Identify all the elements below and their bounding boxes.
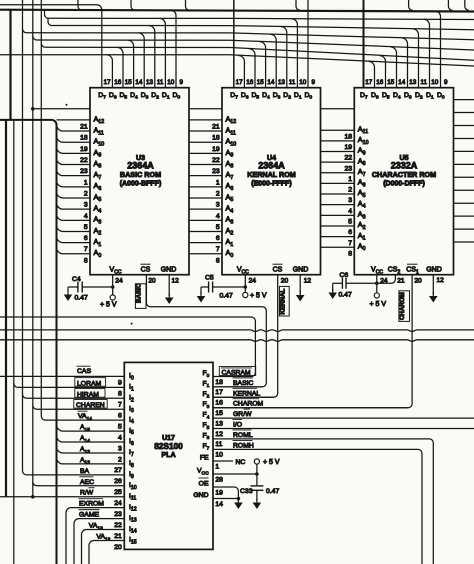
svg-text:18: 18 xyxy=(212,135,220,142)
svg-text:13: 13 xyxy=(146,79,154,86)
svg-text:C6: C6 xyxy=(340,272,349,279)
svg-text:23: 23 xyxy=(80,168,88,175)
svg-text:15: 15 xyxy=(125,79,133,86)
svg-text:24: 24 xyxy=(249,278,257,285)
svg-text:11: 11 xyxy=(157,79,164,86)
svg-text:KERNAL ROM: KERNAL ROM xyxy=(247,170,296,179)
svg-text:13: 13 xyxy=(215,420,223,427)
svg-text:12: 12 xyxy=(304,278,312,285)
svg-text:KERNAL: KERNAL xyxy=(233,390,260,397)
svg-text:17: 17 xyxy=(365,79,373,86)
svg-text:27: 27 xyxy=(114,467,122,474)
svg-text:3: 3 xyxy=(118,445,122,452)
svg-text:20: 20 xyxy=(414,278,422,285)
svg-text:GND: GND xyxy=(161,267,177,274)
svg-text:C4: C4 xyxy=(72,276,81,283)
svg-text:(E000-FFFF): (E000-FFFF) xyxy=(251,180,291,187)
svg-text:ROMH: ROMH xyxy=(233,442,254,449)
svg-text:0.47: 0.47 xyxy=(220,293,233,300)
svg-text:CS: CS xyxy=(141,267,151,274)
svg-text:15: 15 xyxy=(215,410,223,417)
svg-text:C5: C5 xyxy=(205,275,214,282)
svg-text:21: 21 xyxy=(212,124,220,131)
svg-text:BA: BA xyxy=(80,468,90,475)
svg-text:GND: GND xyxy=(293,267,309,274)
svg-text:GR/W: GR/W xyxy=(233,411,252,418)
svg-text:CS: CS xyxy=(273,267,283,274)
svg-text:9: 9 xyxy=(180,79,184,86)
svg-text:2332A: 2332A xyxy=(391,161,418,171)
svg-text:12: 12 xyxy=(437,277,445,284)
svg-text:4: 4 xyxy=(348,208,352,215)
svg-text:26: 26 xyxy=(114,478,122,485)
svg-text:CHAROM: CHAROM xyxy=(399,292,406,320)
svg-text:15: 15 xyxy=(387,79,395,86)
svg-text:14: 14 xyxy=(398,79,406,86)
svg-text:4: 4 xyxy=(84,213,88,220)
svg-text:24: 24 xyxy=(115,278,123,285)
svg-text:28: 28 xyxy=(215,476,223,483)
svg-text:8: 8 xyxy=(216,257,220,264)
svg-text:3: 3 xyxy=(84,202,88,209)
svg-text:23: 23 xyxy=(114,511,122,518)
svg-text:0.47: 0.47 xyxy=(75,295,88,302)
svg-text:2: 2 xyxy=(118,456,122,463)
svg-text:CHARACTER ROM: CHARACTER ROM xyxy=(372,170,436,179)
svg-text:16: 16 xyxy=(114,79,122,86)
svg-text:8: 8 xyxy=(118,391,122,398)
svg-text:11: 11 xyxy=(215,441,222,448)
svg-text:2: 2 xyxy=(216,190,220,197)
svg-text:16: 16 xyxy=(246,79,254,86)
svg-text:1: 1 xyxy=(216,179,220,186)
svg-text:5: 5 xyxy=(84,224,88,231)
svg-text:5: 5 xyxy=(216,224,220,231)
svg-text:8: 8 xyxy=(348,250,352,257)
svg-text:1: 1 xyxy=(215,463,219,470)
svg-text:(A000-BFFF): (A000-BFFF) xyxy=(120,180,162,187)
svg-text:2: 2 xyxy=(348,187,352,194)
svg-text:18: 18 xyxy=(344,133,352,140)
svg-text:OE: OE xyxy=(199,481,209,488)
svg-text:15: 15 xyxy=(257,79,265,86)
svg-text:CHAROM: CHAROM xyxy=(233,401,264,408)
svg-text:6: 6 xyxy=(118,413,122,420)
svg-text:GND: GND xyxy=(426,267,442,274)
svg-text:13: 13 xyxy=(278,79,286,86)
svg-text:18: 18 xyxy=(80,135,88,142)
svg-text:GND: GND xyxy=(193,492,208,499)
svg-text:16: 16 xyxy=(215,400,223,407)
svg-text:4: 4 xyxy=(216,213,220,220)
svg-text:23: 23 xyxy=(344,165,352,172)
svg-text:22: 22 xyxy=(114,522,122,529)
svg-text:4: 4 xyxy=(118,434,122,441)
svg-text:20: 20 xyxy=(281,278,289,285)
svg-text:19: 19 xyxy=(212,146,220,153)
svg-text:3: 3 xyxy=(216,202,220,209)
svg-text:9: 9 xyxy=(444,79,448,86)
svg-text:24: 24 xyxy=(114,500,122,507)
svg-text:ROML: ROML xyxy=(233,432,253,439)
svg-text:+ 5 V: + 5 V xyxy=(100,302,117,309)
svg-text:25: 25 xyxy=(114,489,122,496)
svg-text:9: 9 xyxy=(118,380,122,387)
svg-text:14: 14 xyxy=(267,79,275,86)
svg-text:+ 5 V: + 5 V xyxy=(370,301,387,308)
svg-text:11: 11 xyxy=(421,79,428,86)
svg-text:R/W: R/W xyxy=(80,490,94,497)
svg-text:11: 11 xyxy=(289,79,296,86)
svg-text:KERNAL: KERNAL xyxy=(280,288,287,314)
svg-text:10: 10 xyxy=(299,79,307,86)
svg-text:14: 14 xyxy=(135,79,143,86)
svg-text:C33: C33 xyxy=(240,488,253,495)
svg-text:BASIC: BASIC xyxy=(233,380,253,387)
svg-text:6: 6 xyxy=(216,235,220,242)
svg-text:5: 5 xyxy=(348,219,352,226)
svg-text:17: 17 xyxy=(215,389,223,396)
svg-text:19: 19 xyxy=(344,144,352,151)
svg-text:1: 1 xyxy=(348,176,352,183)
svg-text:7: 7 xyxy=(216,246,220,253)
svg-text:16: 16 xyxy=(376,79,384,86)
svg-text:+ 5 V: + 5 V xyxy=(250,293,267,300)
svg-text:I/O: I/O xyxy=(233,422,242,429)
svg-text:PLA: PLA xyxy=(161,450,175,459)
svg-text:18: 18 xyxy=(215,379,223,386)
svg-text:8: 8 xyxy=(84,257,88,264)
svg-text:21: 21 xyxy=(114,533,122,540)
svg-text:(D000-DFFF): (D000-DFFF) xyxy=(383,180,425,187)
svg-text:21: 21 xyxy=(397,278,405,285)
svg-text:12: 12 xyxy=(172,278,180,285)
svg-text:22: 22 xyxy=(344,155,352,162)
svg-text:14: 14 xyxy=(215,501,223,508)
svg-text:22: 22 xyxy=(212,157,220,164)
svg-text:7: 7 xyxy=(118,402,122,409)
svg-text:13: 13 xyxy=(409,79,417,86)
svg-text:10: 10 xyxy=(431,79,439,86)
svg-text:CAS: CAS xyxy=(77,368,91,375)
svg-text:20: 20 xyxy=(148,278,156,285)
svg-text:6: 6 xyxy=(348,229,352,236)
svg-text:BASIC: BASIC xyxy=(136,283,143,303)
svg-text:GAME: GAME xyxy=(79,512,99,519)
svg-text:23: 23 xyxy=(212,168,220,175)
svg-text:3: 3 xyxy=(348,197,352,204)
svg-text:0.47: 0.47 xyxy=(339,292,352,299)
svg-text:10: 10 xyxy=(167,79,175,86)
svg-text:0.47: 0.47 xyxy=(266,488,279,495)
svg-text:21: 21 xyxy=(80,124,88,131)
svg-text:+ 5 V: + 5 V xyxy=(263,459,280,466)
svg-text:2364A: 2364A xyxy=(127,161,154,171)
svg-text:BASIC ROM: BASIC ROM xyxy=(120,170,161,179)
svg-text:AEC: AEC xyxy=(80,479,94,486)
svg-text:EXROM: EXROM xyxy=(79,501,104,508)
svg-text:22: 22 xyxy=(80,157,88,164)
svg-text:9: 9 xyxy=(312,79,316,86)
svg-text:7: 7 xyxy=(348,240,352,247)
svg-text:19: 19 xyxy=(215,489,223,496)
svg-text:2364A: 2364A xyxy=(258,161,285,171)
svg-text:7: 7 xyxy=(84,246,88,253)
svg-text:19: 19 xyxy=(80,146,88,153)
svg-text:1: 1 xyxy=(84,179,88,186)
svg-text:12: 12 xyxy=(215,431,223,438)
svg-text:6: 6 xyxy=(84,235,88,242)
svg-text:17: 17 xyxy=(236,79,244,86)
svg-text:17: 17 xyxy=(104,79,112,86)
svg-text:5: 5 xyxy=(118,423,122,430)
svg-text:20: 20 xyxy=(114,544,122,551)
svg-text:NC: NC xyxy=(236,459,246,466)
svg-text:FE: FE xyxy=(200,455,209,462)
svg-text:10: 10 xyxy=(215,452,223,459)
svg-text:2: 2 xyxy=(84,190,88,197)
